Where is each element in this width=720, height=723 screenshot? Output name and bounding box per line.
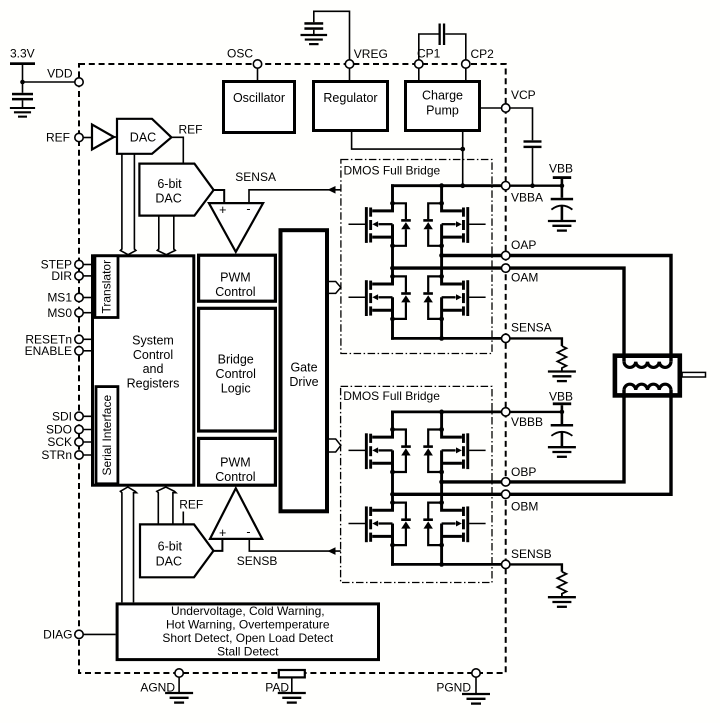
pin ENABLE <box>79 350 93 352</box>
resistor R-SENSB <box>557 572 566 598</box>
DMOS full bridge B dash-dot box <box>341 386 492 582</box>
svg-text:STRn: STRn <box>41 448 72 462</box>
node dot charge pump line on rail A <box>460 183 465 188</box>
pin VBBA <box>502 182 510 190</box>
wire REF pin to buffer <box>79 137 92 139</box>
node dot OAM tap <box>390 266 395 271</box>
VBB supply bar B <box>549 390 573 412</box>
oscillator block <box>224 82 295 133</box>
svg-text:PWM: PWM <box>220 271 251 285</box>
pin OBP <box>502 478 510 486</box>
svg-text:Hot Warning, Overtemperature: Hot Warning, Overtemperature <box>166 617 330 631</box>
pin OBM <box>502 490 510 498</box>
wire OSC stub <box>257 64 259 81</box>
wire CP2 stub <box>465 64 467 81</box>
svg-text:Gate: Gate <box>290 361 317 375</box>
wire SENSB pin to sense resistor <box>506 564 562 571</box>
svg-text:Undervoltage, Cold Warning,: Undervoltage, Cold Warning, <box>171 604 325 618</box>
arrowhead on SENSB sense line <box>328 547 336 555</box>
pin MS0 <box>79 312 93 314</box>
hollow arrow gate drive to bridge A <box>329 282 341 294</box>
wire charge pump bottom to bridge A rail <box>462 132 464 186</box>
svg-text:and: and <box>143 362 164 376</box>
wire OAM tap <box>393 266 506 269</box>
node dot OBM tap <box>390 492 395 497</box>
pin VCP <box>502 104 510 112</box>
DAC block <box>117 119 171 154</box>
capacitor C-VCP <box>524 140 542 185</box>
pin SENSB <box>502 560 510 568</box>
svg-text:OBP: OBP <box>511 465 536 479</box>
wire REF net DAC out to 6-bit DAC A <box>171 137 183 163</box>
bus arrow undervoltage block to system control (line 1) <box>120 487 136 602</box>
wire VREG stub <box>349 64 351 81</box>
svg-text:DAC: DAC <box>155 192 181 206</box>
bus arrow DAC to system control (line 2) <box>128 154 136 255</box>
pin OAM <box>502 264 510 272</box>
pin VDD <box>75 78 83 86</box>
svg-text:PWM: PWM <box>220 456 251 470</box>
pin CP1 <box>415 60 423 68</box>
svg-text:VBB: VBB <box>549 161 573 175</box>
svg-text:System: System <box>132 334 174 348</box>
wire OBM to motor <box>510 390 671 494</box>
node dot regulator/charge-pump junction <box>460 147 465 152</box>
svg-text:SENSB: SENSB <box>237 554 278 568</box>
REF net stub to 6-bit DAC B <box>182 512 184 525</box>
pin SCK <box>79 441 96 443</box>
bridge control logic block <box>199 308 276 431</box>
wire 6-bit DAC B to comparator B plus input <box>214 539 223 551</box>
pin STRn <box>79 454 96 456</box>
svg-text:Control: Control <box>215 285 255 299</box>
node dot OBP tap <box>439 480 444 485</box>
bus arrow 6-bit DAC A to system control (line 1) <box>157 216 166 255</box>
pin CP2 <box>462 60 470 68</box>
3.3V supply rail symbol <box>10 47 35 83</box>
wire VBBA pin to VBB cap node <box>506 184 562 186</box>
svg-text:OSC: OSC <box>227 47 253 61</box>
svg-text:Bridge: Bridge <box>218 353 254 367</box>
svg-text:DIR: DIR <box>51 269 72 283</box>
capacitor C-VBBA polarized <box>551 186 573 221</box>
wire bridge A left drain chain <box>391 184 394 339</box>
wire bridge B left drain chain <box>391 411 394 566</box>
pin SDO <box>79 429 96 431</box>
svg-text:Control: Control <box>215 470 255 484</box>
node dot OAP tap <box>439 253 444 258</box>
op-amp buffer U1 <box>92 125 114 150</box>
wire charge pump to VCP pin <box>480 107 506 109</box>
node dot VBB A stem junction <box>560 183 565 188</box>
svg-text:SCK: SCK <box>47 435 72 449</box>
svg-text:DMOS Full Bridge: DMOS Full Bridge <box>344 164 441 178</box>
svg-text:PGND: PGND <box>436 681 471 695</box>
svg-text:OAP: OAP <box>511 238 536 252</box>
svg-text:Oscillator: Oscillator <box>233 91 285 105</box>
pin MS1 <box>79 297 93 299</box>
pin VBBB <box>502 408 510 416</box>
svg-text:Registers: Registers <box>127 376 180 390</box>
svg-text:+: + <box>219 526 226 540</box>
svg-text:Regulator: Regulator <box>323 91 377 105</box>
transistor Q7 bridge B low-side left <box>349 500 411 547</box>
gate drive block <box>281 230 328 511</box>
wire bridge A right drain chain <box>440 184 443 339</box>
capacitor C-VBBB polarized <box>551 412 573 447</box>
PWM control B block <box>199 438 276 485</box>
resistor R-SENSA <box>557 346 566 372</box>
svg-text:DIAG: DIAG <box>43 628 72 642</box>
pin RESETn <box>79 338 93 340</box>
wire VREG decoupling to ground <box>314 11 350 64</box>
undervoltage warning label <box>162 604 333 659</box>
svg-text:ENABLE: ENABLE <box>25 344 72 358</box>
wire SENSB to comparator B minus input <box>249 539 340 551</box>
svg-text:Drive: Drive <box>289 375 318 389</box>
transistor Q6 bridge B high-side right <box>423 427 485 474</box>
svg-text:6-bit: 6-bit <box>157 177 182 191</box>
svg-text:VDD: VDD <box>47 67 73 81</box>
pin DIAG <box>75 630 83 638</box>
pin VREG <box>345 60 353 68</box>
motor shaft <box>682 372 705 377</box>
VBB supply bar A <box>549 161 573 185</box>
pin OAP <box>502 251 510 259</box>
capacitor C-VDD <box>12 82 33 108</box>
pin SENSA <box>502 334 510 342</box>
DMOS full bridge A dash-dot box <box>341 160 492 354</box>
node dot VCP cap junction <box>530 183 535 188</box>
transistor Q2 bridge A high-side right <box>423 201 485 248</box>
capacitor C-pump between CP1 CP2 <box>419 24 466 65</box>
wire OBM tap <box>393 493 506 496</box>
node dot bridge A right drain on rail <box>439 183 444 188</box>
pin STEP <box>79 264 93 266</box>
wire VBBB pin to VBB cap node <box>506 411 562 413</box>
svg-text:SENSA: SENSA <box>235 170 276 184</box>
transistor Q4 bridge A low-side right <box>423 274 485 321</box>
wire OBP tap <box>442 480 506 483</box>
wire OAP to motor <box>510 256 671 363</box>
transistor Q3 bridge A low-side left <box>349 274 411 321</box>
wire bridge B right drain chain <box>440 411 443 566</box>
svg-text:SENSB: SENSB <box>511 547 552 561</box>
svg-text:-: - <box>246 202 250 216</box>
svg-text:VBB: VBB <box>549 390 573 404</box>
svg-text:6-bit: 6-bit <box>158 539 183 553</box>
svg-text:Pump: Pump <box>426 104 459 118</box>
undervoltage warning block <box>117 604 378 660</box>
transistor Q5 bridge B high-side left <box>349 427 411 474</box>
bridge B bottom sense rail <box>391 563 506 566</box>
pin PGND with ground <box>436 669 490 704</box>
translator block <box>95 256 118 318</box>
wire CP1 stub <box>418 64 420 81</box>
svg-text:Short Detect, Open Load Detect: Short Detect, Open Load Detect <box>162 631 333 645</box>
node dot VBB B stem junction <box>560 410 565 415</box>
svg-text:SENSA: SENSA <box>511 321 552 335</box>
svg-text:DMOS Full Bridge: DMOS Full Bridge <box>343 389 440 403</box>
transistor Q1 bridge A high-side left <box>349 201 411 248</box>
wire DIAG to undervoltage block <box>79 633 116 635</box>
system control and registers block <box>93 256 194 485</box>
PWM control B label <box>215 456 255 484</box>
ground below C-VBBB <box>548 447 576 457</box>
bus arrow 6-bit DAC A to system control (line 2) <box>166 216 175 255</box>
svg-text:Logic: Logic <box>221 381 251 395</box>
wire VCP to bulk cap <box>506 108 533 140</box>
svg-text:VBBB: VBBB <box>511 415 543 429</box>
svg-text:OBM: OBM <box>511 500 538 514</box>
svg-text:DAC: DAC <box>130 131 156 145</box>
wire SENSA pin to sense resistor <box>506 338 562 346</box>
svg-text:Translator: Translator <box>100 260 114 314</box>
svg-text:DAC: DAC <box>156 554 182 568</box>
ground below C-VDD <box>10 108 35 117</box>
node dot bridge A right source on sense rail <box>439 336 444 341</box>
svg-text:Charge: Charge <box>422 89 463 103</box>
ground below C-VBBA <box>548 221 576 231</box>
pad exposed thermal pad with ground <box>265 670 306 703</box>
6-bit DAC A block <box>139 164 213 216</box>
wire OAP tap <box>442 254 506 257</box>
ground below R-SENSA <box>548 372 576 382</box>
svg-text:VREG: VREG <box>354 47 388 61</box>
svg-text:MS0: MS0 <box>47 306 72 320</box>
node dot 3.3V/VDD junction <box>20 80 25 85</box>
svg-text:CP1: CP1 <box>417 47 441 61</box>
svg-text:Stall Detect: Stall Detect <box>217 645 279 659</box>
svg-text:CP2: CP2 <box>471 47 495 61</box>
svg-text:REF: REF <box>179 498 203 512</box>
svg-text:-: - <box>246 525 250 539</box>
wire OAM to motor <box>510 268 624 362</box>
6-bit DAC B block <box>140 524 214 577</box>
svg-text:REF: REF <box>179 123 203 137</box>
svg-text:OAM: OAM <box>511 271 538 285</box>
ground below R-SENSB <box>548 597 576 607</box>
stepper motor body <box>615 356 680 396</box>
bridge A bottom sense rail <box>391 337 506 340</box>
wire SENSA to comparator minus input <box>249 190 341 203</box>
svg-text:Control: Control <box>133 348 173 362</box>
system control label <box>127 334 180 391</box>
bus arrow DAC to system control (line 1) <box>120 154 128 255</box>
transistor Q8 bridge B low-side right <box>423 500 485 547</box>
PWM control A block <box>199 255 276 301</box>
bus arrow system control to 6-bit DAC B (line 1) <box>157 487 176 524</box>
bridge A top supply rail <box>391 184 506 187</box>
pin DIR <box>79 275 93 277</box>
comparator B <box>210 488 262 539</box>
pin OSC <box>253 60 261 68</box>
node dot bridge B right drain on rail <box>439 410 444 415</box>
PWM control A label <box>215 271 255 299</box>
motor winding B <box>624 384 671 398</box>
wire regulator bottom to bridge supply <box>352 132 463 149</box>
svg-text:REF: REF <box>46 131 70 145</box>
svg-text:PAD: PAD <box>265 681 289 695</box>
svg-text:Serial Interface: Serial Interface <box>100 395 114 476</box>
pin REF <box>75 133 83 141</box>
arrowhead on SENSA sense line <box>328 186 336 194</box>
node dot bridge B right source on sense rail <box>439 562 444 567</box>
gate drive label <box>289 361 318 389</box>
serial interface block <box>96 387 118 484</box>
charge pump block <box>406 82 480 131</box>
regulator block <box>314 82 388 131</box>
wire buffer to DAC <box>114 136 118 138</box>
motor winding A <box>624 354 671 368</box>
wire 6-bit DAC A to comparator plus input <box>214 190 225 203</box>
capacitor C-VREG <box>304 22 323 35</box>
comparator A <box>209 203 263 252</box>
wire 3.3V node to VDD pin <box>23 81 80 83</box>
svg-text:VBBA: VBBA <box>511 191 543 205</box>
pin SDI <box>79 415 96 417</box>
wire OBP to motor <box>510 390 624 482</box>
ground below C-VREG <box>300 35 327 44</box>
svg-text:+: + <box>219 203 226 217</box>
svg-text:MS1: MS1 <box>47 291 72 305</box>
pin AGND with ground <box>140 669 193 703</box>
bridge control logic label <box>216 353 256 396</box>
svg-text:VCP: VCP <box>511 88 536 102</box>
svg-text:Control: Control <box>216 367 256 381</box>
IC boundary dashed border <box>79 64 506 673</box>
svg-text:AGND: AGND <box>140 681 175 695</box>
bridge B top supply rail <box>391 410 506 413</box>
svg-text:3.3V: 3.3V <box>10 47 35 61</box>
hollow arrow gate drive to bridge B <box>329 439 341 452</box>
svg-text:SDI: SDI <box>52 410 72 424</box>
